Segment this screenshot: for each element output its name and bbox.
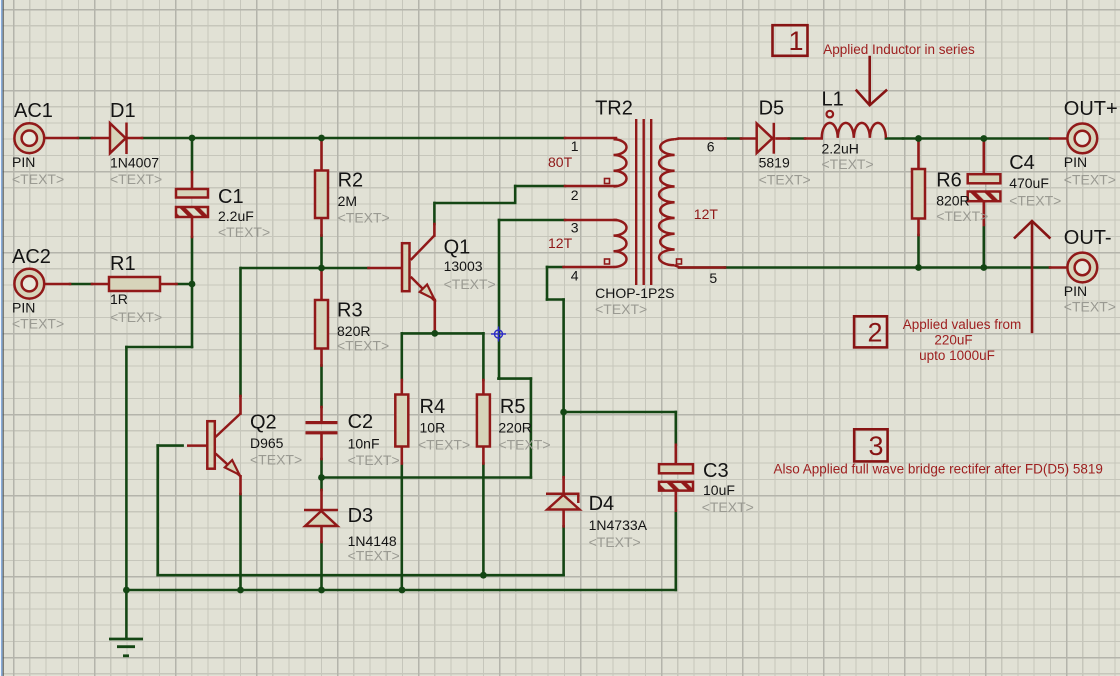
svg-text:R5: R5 xyxy=(500,396,526,418)
svg-text:12T: 12T xyxy=(548,235,573,251)
svg-text:2M: 2M xyxy=(338,193,357,209)
svg-text:<TEXT>: <TEXT> xyxy=(595,301,647,317)
svg-text:2: 2 xyxy=(867,318,882,348)
svg-text:PIN: PIN xyxy=(12,154,35,170)
svg-text:6: 6 xyxy=(707,139,715,155)
svg-text:5: 5 xyxy=(709,270,717,286)
svg-text:1R: 1R xyxy=(110,291,128,307)
svg-text:<TEXT>: <TEXT> xyxy=(498,437,550,453)
svg-text:R1: R1 xyxy=(110,253,136,275)
svg-text:D3: D3 xyxy=(348,505,374,527)
svg-text:820R: 820R xyxy=(337,323,370,339)
svg-text:470uF: 470uF xyxy=(1009,175,1049,191)
svg-text:<TEXT>: <TEXT> xyxy=(218,224,270,240)
svg-text:PIN: PIN xyxy=(12,300,35,316)
svg-text:upto 1000uF: upto 1000uF xyxy=(919,348,995,363)
svg-text:1: 1 xyxy=(788,26,803,56)
svg-text:Q2: Q2 xyxy=(250,412,277,434)
svg-text:10uF: 10uF xyxy=(703,482,735,498)
svg-text:Applied Inductor in series: Applied Inductor in series xyxy=(823,42,975,57)
svg-text:D5: D5 xyxy=(759,98,785,120)
svg-text:Also Applied full wave bridge: Also Applied full wave bridge rectifer a… xyxy=(774,462,1103,477)
svg-text:2: 2 xyxy=(571,187,579,203)
svg-text:2.2uH: 2.2uH xyxy=(822,141,859,157)
svg-text:PIN: PIN xyxy=(1064,154,1087,170)
svg-text:80T: 80T xyxy=(548,154,573,170)
svg-text:C3: C3 xyxy=(703,460,729,482)
svg-text:D1: D1 xyxy=(110,100,136,122)
svg-text:<TEXT>: <TEXT> xyxy=(1064,171,1116,187)
svg-text:C4: C4 xyxy=(1009,152,1035,174)
svg-text:<TEXT>: <TEXT> xyxy=(337,338,389,354)
svg-text:2.2uF: 2.2uF xyxy=(218,208,254,224)
svg-text:R2: R2 xyxy=(338,170,364,192)
svg-text:<TEXT>: <TEXT> xyxy=(1064,298,1116,314)
svg-text:OUT-: OUT- xyxy=(1064,227,1112,249)
svg-text:C1: C1 xyxy=(218,186,244,208)
svg-text:220uF: 220uF xyxy=(934,333,972,348)
svg-text:C2: C2 xyxy=(348,411,374,433)
svg-text:TR2: TR2 xyxy=(595,98,633,120)
svg-text:<TEXT>: <TEXT> xyxy=(110,171,162,187)
svg-text:<TEXT>: <TEXT> xyxy=(12,171,64,187)
svg-text:13003: 13003 xyxy=(444,258,483,274)
svg-text:OUT+: OUT+ xyxy=(1064,98,1118,120)
svg-text:<TEXT>: <TEXT> xyxy=(936,208,988,224)
svg-text:<TEXT>: <TEXT> xyxy=(12,316,64,332)
svg-text:3: 3 xyxy=(571,219,579,235)
svg-text:1N4007: 1N4007 xyxy=(110,155,159,171)
svg-text:12T: 12T xyxy=(694,206,719,222)
svg-text:220R: 220R xyxy=(498,420,531,436)
svg-text:<TEXT>: <TEXT> xyxy=(702,499,754,515)
svg-text:<TEXT>: <TEXT> xyxy=(418,437,470,453)
svg-text:<TEXT>: <TEXT> xyxy=(1009,193,1061,209)
svg-text:R6: R6 xyxy=(936,170,962,192)
svg-text:10nF: 10nF xyxy=(348,436,380,452)
svg-text:R4: R4 xyxy=(420,396,446,418)
svg-text:<TEXT>: <TEXT> xyxy=(110,309,162,325)
svg-text:1: 1 xyxy=(571,138,579,154)
svg-text:4: 4 xyxy=(571,268,579,284)
svg-text:AC2: AC2 xyxy=(12,246,51,268)
svg-text:5819: 5819 xyxy=(759,155,790,171)
svg-text:D4: D4 xyxy=(589,493,615,515)
svg-text:<TEXT>: <TEXT> xyxy=(822,156,874,172)
svg-text:<TEXT>: <TEXT> xyxy=(338,210,390,226)
svg-text:3: 3 xyxy=(868,431,883,461)
svg-text:Applied values from: Applied values from xyxy=(903,317,1022,332)
svg-text:Q1: Q1 xyxy=(444,237,471,259)
svg-text:<TEXT>: <TEXT> xyxy=(759,172,811,188)
svg-text:D965: D965 xyxy=(250,435,284,451)
svg-text:<TEXT>: <TEXT> xyxy=(589,534,641,550)
svg-text:AC1: AC1 xyxy=(14,100,53,122)
svg-text:PIN: PIN xyxy=(1064,283,1087,299)
svg-text:CHOP-1P2S: CHOP-1P2S xyxy=(595,285,674,301)
svg-text:<TEXT>: <TEXT> xyxy=(250,452,302,468)
svg-text:1N4733A: 1N4733A xyxy=(589,517,648,533)
svg-text:<TEXT>: <TEXT> xyxy=(444,276,496,292)
svg-text:10R: 10R xyxy=(420,420,446,436)
svg-text:820R: 820R xyxy=(936,193,969,209)
svg-text:R3: R3 xyxy=(337,300,363,322)
svg-text:<TEXT>: <TEXT> xyxy=(348,452,400,468)
svg-text:L1: L1 xyxy=(822,89,844,111)
svg-text:<TEXT>: <TEXT> xyxy=(348,548,400,564)
